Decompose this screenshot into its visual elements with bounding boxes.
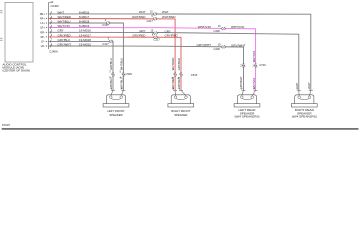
svg-text:WHT/BLU: WHT/BLU [120,58,124,70]
svg-text:C526: C526 [126,72,133,76]
speaker wire stubs [298,90,300,96]
svg-text:8-MD19: 8-MD19 [79,24,90,28]
inline connector C317 pin 2 (wire3) [106,22,110,25]
speaker wire stubs [111,90,113,96]
wire 8 GRY/WHT LR- [49,46,244,90]
svg-text:GRY/RED: GRY/RED [165,33,178,37]
speaker body [295,95,314,104]
svg-text:WHT/VIO: WHT/VIO [198,25,212,29]
svg-text:GRY/RED: GRY/RED [177,58,181,70]
pin 4 [49,26,51,29]
svg-text:C2400: C2400 [51,4,60,8]
svg-text:LF-: LF- [41,40,45,43]
svg-text:WHT/VIO: WHT/VIO [252,51,256,63]
wire 4 WHT/VIO LR+ [49,28,256,91]
svg-text:WHT: WHT [139,10,146,14]
speaker wire stubs [242,90,244,96]
svg-text:GRY/WHT: GRY/WHT [231,43,246,47]
svg-text:C740: C740 [259,63,266,67]
svg-text:LR+: LR+ [40,27,45,30]
speaker body [106,95,125,104]
svg-text:C217: C217 [147,19,154,23]
svg-text:C317: C317 [102,42,109,46]
pin 6 [49,36,51,39]
svg-text:C217: C217 [154,38,161,42]
wire 1 WHT RR+ [49,14,311,90]
speaker wire stubs [174,90,177,96]
svg-text:GRY/WHT: GRY/WHT [58,42,72,46]
connector C2400 bracket [48,3,50,50]
svg-text:8-MD17: 8-MD17 [79,15,90,19]
speaker connector pins [297,89,301,91]
svg-text:LF+: LF+ [40,22,45,25]
svg-text:WHT/RED: WHT/RED [58,15,72,19]
svg-text:WHT/RED: WHT/RED [132,15,146,19]
svg-text:GRY/RED: GRY/RED [132,33,145,37]
svg-text:GRY: GRY [58,29,64,33]
svg-text:GRY/BLU: GRY/BLU [58,38,71,42]
svg-text:GRY/WHT: GRY/WHT [196,43,211,47]
svg-text:GRY/BLU: GRY/BLU [109,58,113,70]
svg-text:97105: 97105 [2,123,10,127]
wire 5 GRY RR- [49,32,299,90]
pin 3 [49,22,51,25]
pin 5 [49,31,51,34]
wire 6 GRY/RED RF- [49,37,182,90]
margin mark [0,37,3,39]
svg-text:19-MD15: 19-MD15 [79,42,91,46]
speaker connector pins [242,89,246,91]
svg-text:WHT: WHT [58,10,65,14]
svg-text:WHT/RED: WHT/RED [162,15,176,19]
svg-text:WHT/RED: WHT/RED [171,58,175,71]
svg-text:LR-: LR- [41,45,45,48]
svg-text:RF-: RF- [41,36,45,39]
speaker connector pins [111,89,115,91]
svg-text:19-MD17: 19-MD17 [79,33,91,37]
svg-text:C230: C230 [214,29,221,33]
speaker body [237,95,256,104]
svg-text:(CENTER OF DASH): (CENTER OF DASH) [3,69,30,73]
svg-text:WHT/VIO: WHT/VIO [231,25,245,29]
pin 1 [49,13,51,16]
svg-text:WHT/BLU: WHT/BLU [58,19,71,23]
wire 2 WHT/RED RF+ [49,19,176,91]
inline connector C317 pin 2 (wire7) [109,40,113,43]
wire 3 WHT/BLU LF+ [49,23,124,90]
svg-text:19-MD18: 19-MD18 [79,38,91,42]
svg-text:WHT/VIO: WHT/VIO [58,24,71,28]
svg-text:19-MD16: 19-MD16 [79,29,91,33]
pin 2 [49,17,51,20]
margin mark [0,10,3,12]
svg-text:C516: C516 [191,73,198,77]
svg-text:C230: C230 [214,47,221,51]
svg-text:C240A: C240A [49,49,58,53]
svg-text:SPEAKER: SPEAKER [109,113,122,117]
svg-text:(W/4 SPEAKERS): (W/4 SPEAKERS) [234,115,259,119]
svg-text:8-MD16: 8-MD16 [79,10,90,14]
svg-text:SPEAKER: SPEAKER [174,113,187,117]
wire 7 GRY/BLU LF- [49,41,114,90]
svg-text:RR+: RR+ [40,13,46,16]
svg-text:8-MD18: 8-MD18 [79,19,90,23]
svg-text:RF+: RF+ [40,18,45,21]
svg-text:(W/4 SPEAKERS): (W/4 SPEAKERS) [292,115,317,119]
svg-text:WHT: WHT [162,10,169,14]
pin 8 [49,45,51,48]
svg-text:C317: C317 [102,23,109,27]
footer rule [2,128,359,130]
svg-text:RR-: RR- [40,31,45,34]
audio control module box [5,3,33,63]
svg-text:GRY/RED: GRY/RED [58,33,71,37]
speaker connector pins [173,89,177,91]
pin 7 [49,40,51,43]
speaker body [171,95,190,104]
